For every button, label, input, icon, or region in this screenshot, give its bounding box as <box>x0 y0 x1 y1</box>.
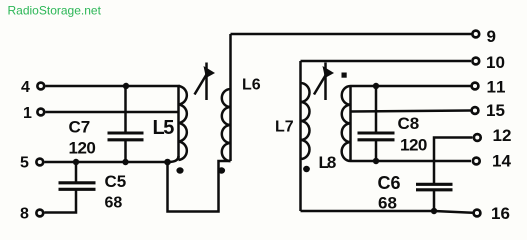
wire transformer1 bottom loop <box>168 161 231 212</box>
junction C7 bottom on pin5 line <box>122 159 128 165</box>
svg-text:68: 68 <box>378 194 397 213</box>
wire L5 bottom tail <box>168 156 179 162</box>
wire pin9 line <box>231 33 472 36</box>
capacitor C5 plates <box>59 183 96 190</box>
wire pin12 line and capacitor C6 leads <box>434 138 473 212</box>
svg-text:C6: C6 <box>378 173 401 193</box>
svg-text:1: 1 <box>23 105 32 122</box>
terminal 4 circle <box>37 83 44 90</box>
junction C5 top on pin5 line <box>73 159 79 165</box>
terminal 10 circle <box>472 58 479 65</box>
capacitor C7 plates <box>108 133 144 140</box>
terminal 11 circle <box>472 83 479 90</box>
phase dot L6 <box>218 167 225 173</box>
svg-text:C7: C7 <box>69 118 91 137</box>
svg-text:120: 120 <box>69 139 96 158</box>
inductor L5 <box>179 86 187 160</box>
wire pin14 line <box>351 160 472 163</box>
terminal 14 circle <box>473 158 480 165</box>
svg-text:C5: C5 <box>105 172 127 191</box>
svg-text:L5: L5 <box>153 117 175 139</box>
svg-text:120: 120 <box>400 136 427 155</box>
trimmer arrow transformer2 head <box>323 66 335 78</box>
terminal 9 circle <box>472 31 479 38</box>
svg-text:8: 8 <box>20 206 29 223</box>
terminal 15 circle <box>472 107 479 114</box>
trimmer arrow transformer1 shaft <box>205 63 208 101</box>
wire pin4 line <box>46 85 181 88</box>
svg-text:11: 11 <box>487 78 507 97</box>
svg-text:L6: L6 <box>242 77 261 94</box>
svg-text:9: 9 <box>487 27 496 46</box>
junction L5 bottom on pin5 line <box>164 159 171 166</box>
svg-text:RadioStorage.net: RadioStorage.net <box>8 4 102 18</box>
phase dot L5 <box>176 167 183 173</box>
capacitor C8 plates <box>358 133 395 140</box>
phase dot L7 <box>303 166 310 172</box>
svg-text:C8: C8 <box>398 114 420 133</box>
capacitor C7 leads <box>124 86 127 162</box>
svg-text:5: 5 <box>20 155 29 172</box>
trimmer arrow transformer2 shaft <box>324 63 327 101</box>
inductor L7 <box>301 61 310 211</box>
trimmer arrow transformer2 diagonal <box>314 72 328 95</box>
junction C6 bottom on pin16 line <box>431 208 437 214</box>
svg-text:L8: L8 <box>319 153 336 172</box>
capacitor C5 leads <box>44 162 76 213</box>
wire pin16 line <box>301 211 473 213</box>
junction C8 top on pin11 line <box>373 83 379 89</box>
capacitor C6 plates <box>416 184 453 190</box>
trimmer arrow transformer1 diagonal <box>195 72 209 95</box>
wire pin15 line (tap of L8) <box>351 111 471 112</box>
inductor L6 <box>222 34 231 161</box>
svg-text:14: 14 <box>492 152 511 171</box>
terminal 8 circle <box>36 210 43 217</box>
capacitor C8 leads <box>375 86 378 161</box>
svg-text:68: 68 <box>105 195 123 212</box>
svg-text:10: 10 <box>486 53 505 72</box>
wire pin10 line <box>301 60 472 63</box>
trimmer arrow transformer1 head <box>204 66 216 78</box>
wire pin1 line (tap of L5) <box>46 111 180 114</box>
svg-text:12: 12 <box>493 126 512 145</box>
svg-text:16: 16 <box>491 204 510 223</box>
terminal 12 circle <box>474 134 481 141</box>
junction C7 top on pin4 line <box>123 83 129 89</box>
wire pin11 line <box>351 85 471 88</box>
terminal 16 circle <box>474 210 481 217</box>
inductor L8 <box>342 86 351 162</box>
svg-text:15: 15 <box>486 101 505 120</box>
terminal 5 circle <box>36 159 43 166</box>
junction C8 bottom on pin14 line <box>373 158 379 164</box>
svg-text:L7: L7 <box>275 119 294 136</box>
wire pin5 line <box>45 161 169 164</box>
terminal 1 circle <box>37 109 44 116</box>
svg-text:4: 4 <box>21 79 30 96</box>
phase dot L8 (square) <box>342 73 347 78</box>
